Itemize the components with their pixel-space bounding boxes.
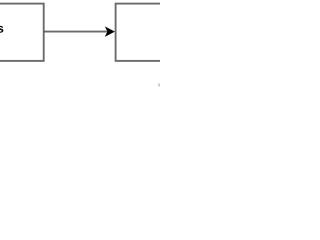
arrowhead (classic notched) (106, 27, 114, 36)
box: left process (clipped at left edge) (0, 4, 44, 61)
label: left box text ending in "s" (word clipped) (0, 26, 3, 33)
faint clipped mark at right edge (158, 83, 161, 86)
wire: connector arrow shaft (44, 31, 108, 33)
box: right process (clipped at right edge) (116, 4, 176, 61)
